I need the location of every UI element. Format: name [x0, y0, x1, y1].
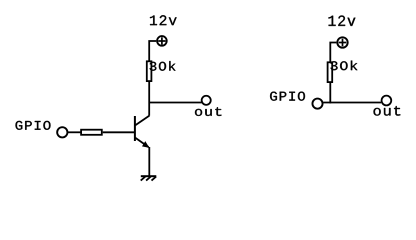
label 12V (left supply) — [150, 15, 177, 25]
wire base resistor to transistor base — [103, 131, 135, 133]
resistor 30k pull-up (right) — [328, 62, 333, 82]
transistor Q1 (NPN) — [135, 116, 150, 148]
wire GPIO terminal to base resistor — [68, 131, 81, 133]
terminal GPIO (right) — [312, 99, 322, 109]
terminal out (right) — [382, 96, 392, 106]
wire resistor bottom to collector (left) — [148, 82, 150, 116]
label out (right) — [374, 106, 401, 116]
wire GPIO terminal to out terminal (right) — [323, 102, 381, 104]
label 30k (right) — [331, 61, 358, 71]
terminal GPIO (left) — [57, 127, 67, 137]
resistor 30k pull-up (left) — [147, 61, 152, 81]
wire collector node to out terminal (left) — [149, 102, 201, 104]
label out (left) — [195, 107, 221, 116]
power terminal +12V (right) — [337, 37, 347, 47]
label 12V (right supply) — [329, 16, 356, 26]
wire resistor bottom to node (right) — [329, 83, 331, 104]
base resistor (left, unlabeled) — [81, 130, 102, 135]
power terminal +12V (left) — [157, 36, 167, 46]
label GPIO (right) — [270, 92, 305, 101]
wire supply terminal to resistor top (left) — [149, 41, 156, 61]
ground (left) — [141, 176, 157, 180]
wire supply terminal to resistor top (right) — [330, 43, 336, 63]
terminal out (left) — [202, 96, 211, 105]
label 30k (left) — [150, 61, 176, 71]
label GPIO (left) — [16, 121, 51, 130]
wire emitter to ground — [148, 147, 150, 176]
